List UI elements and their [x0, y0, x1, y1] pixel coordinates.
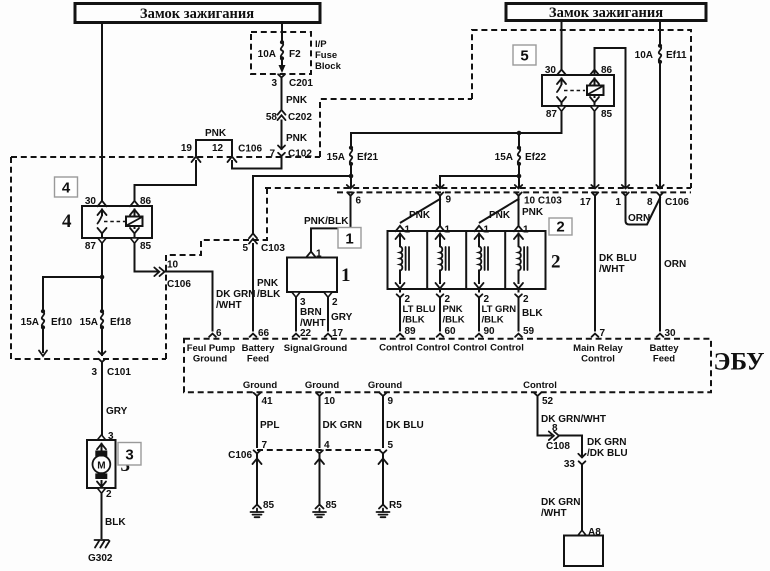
dashed boundary: underhood fuse/relay block outline (left box + top run) — [11, 156, 320, 158]
svg-text:6: 6 — [216, 328, 222, 339]
component 1 pin 3 — [292, 292, 306, 308]
relay 4 pin 87 — [85, 238, 106, 252]
svg-text:1: 1 — [445, 225, 451, 236]
svg-text:Ef10: Ef10 — [51, 317, 73, 328]
ORN jumper loop pins 1-8 — [626, 198, 661, 225]
svg-text:C101: C101 — [107, 367, 131, 378]
svg-text:PPL: PPL — [260, 420, 279, 431]
dashed box: I/P fuse block — [251, 32, 311, 74]
wire DK GRN/WHT to A8 — [541, 465, 582, 532]
wire: Ef22 to connector 10 C103 with branch to connector 9 — [517, 165, 522, 187]
svg-text:6: 6 — [356, 196, 362, 207]
svg-text:2: 2 — [523, 294, 529, 305]
svg-text:15A: 15A — [495, 152, 513, 163]
dashed boundary: connector row upper line — [265, 187, 691, 189]
svg-text:59: 59 — [523, 326, 535, 337]
ECU bottom pin 52 Control — [523, 380, 557, 436]
svg-text:15A: 15A — [80, 317, 98, 328]
connector C106 pin 10 — [154, 260, 191, 291]
wire LT BLU/BLK to ECU pin 89 — [400, 298, 436, 331]
connector 33 — [564, 454, 586, 470]
svg-text:Control: Control — [453, 343, 487, 354]
svg-text:17: 17 — [332, 328, 344, 339]
svg-text:Signal: Signal — [284, 343, 313, 354]
svg-text:DK BLU: DK BLU — [599, 253, 637, 264]
svg-text:9: 9 — [446, 195, 452, 206]
wire: relay5 87 to feed line — [351, 111, 562, 133]
svg-text:8: 8 — [552, 423, 558, 434]
connector C106 pin 5 — [379, 440, 394, 504]
svg-text:10A: 10A — [258, 49, 276, 60]
svg-text:Ef18: Ef18 — [110, 317, 132, 328]
svg-text:41: 41 — [262, 396, 274, 407]
connector C103 pin 5 — [242, 233, 285, 254]
wire: ignition right to fuse Ef11 — [659, 21, 661, 46]
svg-text:BLK: BLK — [522, 308, 543, 319]
wire to pin 33 — [559, 436, 628, 460]
svg-text:DK GRN: DK GRN — [323, 420, 362, 431]
wire DK BLU/WHT to ECU pin 7 — [595, 200, 637, 331]
svg-text:Ground: Ground — [305, 380, 339, 391]
connector row: pin 17 — [580, 185, 599, 208]
injector 1 — [396, 225, 411, 306]
injector feed diagonal to injector 3 — [480, 199, 519, 223]
svg-text:7: 7 — [600, 328, 606, 339]
ECU bottom pin 10 Ground — [305, 380, 339, 447]
fuel pump callout box 3 — [118, 443, 141, 466]
relay 5 coil — [587, 79, 604, 106]
svg-text:G302: G302 — [88, 553, 113, 564]
wire: relay4 87 down with branch junction — [100, 243, 105, 311]
svg-text:30: 30 — [85, 196, 97, 207]
ignition switch box right (Замок зажигания) — [506, 4, 706, 22]
svg-text:8: 8 — [647, 197, 653, 208]
svg-text:85: 85 — [140, 241, 152, 252]
wire: Ef11 down to connector 8 C106 — [659, 63, 661, 187]
injectors component 2 box — [388, 231, 546, 289]
svg-text:Ef22: Ef22 — [525, 152, 547, 163]
svg-text:85: 85 — [263, 500, 275, 511]
svg-text:33: 33 — [564, 459, 576, 470]
svg-text:87: 87 — [546, 109, 558, 120]
wire: branch to Ef10 — [43, 277, 102, 311]
injector 3 — [475, 225, 490, 306]
svg-text:5: 5 — [242, 243, 248, 254]
wire: pin19 down to relay4 pin 86 — [135, 161, 197, 201]
svg-text:Battery: Battery — [242, 343, 275, 354]
svg-text:Feul Pump: Feul Pump — [187, 343, 236, 354]
dashed box: ECU (ЭБУ) — [184, 339, 711, 393]
ECU pin 90 Control — [453, 326, 495, 354]
svg-text:/WHT: /WHT — [541, 508, 567, 519]
fuse Ef22 15A — [495, 146, 547, 166]
svg-text:1: 1 — [523, 225, 529, 236]
svg-text:DK GRN/WHT: DK GRN/WHT — [541, 414, 606, 425]
relay 5 box — [542, 75, 614, 106]
svg-text:15A: 15A — [21, 317, 39, 328]
connector row: pin 10 C103 — [515, 185, 562, 207]
svg-text:Main Relay: Main Relay — [573, 343, 623, 354]
wire: Ef18 to C101 — [101, 328, 103, 355]
svg-text:66: 66 — [258, 328, 270, 339]
svg-text:Ground: Ground — [313, 343, 347, 354]
wire: ignition left to relay4 pin30 — [101, 23, 103, 202]
ECU bottom pin 9 Ground — [368, 380, 402, 447]
svg-text:5: 5 — [520, 48, 528, 65]
ECU pin 7 Main Relay Control — [573, 328, 623, 365]
wire PNK C201-C202 — [282, 78, 308, 111]
relay 4 coil — [126, 210, 143, 238]
relay 4 pin 85 — [130, 238, 151, 252]
relay 4 callout box — [55, 177, 78, 197]
svg-text:10: 10 — [167, 260, 179, 271]
ground 85 (PPL) — [251, 500, 275, 517]
svg-text:2: 2 — [106, 489, 112, 500]
svg-text:PNK: PNK — [522, 207, 544, 218]
svg-text:/BLK: /BLK — [403, 315, 425, 326]
wire PNK/BLK to ECU pin 60 — [440, 298, 465, 331]
svg-text:9: 9 — [388, 396, 394, 407]
svg-text:Block: Block — [315, 61, 342, 72]
injector 4 — [514, 225, 529, 306]
dashed boundary: connector row lower line — [337, 191, 691, 193]
fuse Ef18 15A — [80, 309, 132, 329]
relay 4 pin 30 — [85, 196, 107, 207]
svg-text:F2: F2 — [289, 49, 301, 60]
svg-text:Ef11: Ef11 — [666, 50, 687, 61]
connector row: pin 9 — [436, 185, 451, 206]
connector row: pin 1 — [615, 185, 629, 208]
component 1 callout box — [338, 228, 361, 249]
svg-text:C103: C103 — [261, 243, 285, 254]
relay 4 switch — [98, 210, 107, 238]
wire: feed down to Ef21 — [350, 133, 352, 147]
wire PNK/BLK: connector 6 to component 1 pin 1 — [304, 216, 351, 251]
svg-text:R5: R5 — [389, 500, 402, 511]
wire: relay4 85 to C106 pin10 — [135, 243, 158, 272]
svg-text:C106: C106 — [665, 197, 689, 208]
svg-text:/WHT: /WHT — [216, 300, 242, 311]
svg-text:Fuse: Fuse — [315, 50, 337, 61]
module box A8 — [564, 527, 603, 566]
ECU pin 6 Feul Pump Ground — [187, 328, 236, 365]
ECU pin 22 Signal — [284, 328, 313, 354]
svg-text:DK BLU: DK BLU — [386, 420, 424, 431]
PNK jumper staple pins 19-12 — [181, 128, 232, 155]
ground G302 — [88, 540, 113, 564]
svg-text:Замок зажигания: Замок зажигания — [140, 6, 254, 22]
svg-text:Control: Control — [581, 354, 615, 365]
wire: branch to connector 9 — [440, 176, 519, 187]
svg-text:DK GRN: DK GRN — [216, 289, 255, 300]
ECU pin 66 Battery Feed — [242, 328, 275, 365]
svg-text:4: 4 — [62, 211, 72, 232]
fuse F2 10A — [258, 40, 301, 60]
svg-text:LT GRN: LT GRN — [482, 304, 517, 315]
svg-text:Control: Control — [416, 343, 450, 354]
svg-text:Feed: Feed — [247, 354, 269, 365]
wire BLK to ground — [102, 493, 127, 538]
svg-text:DK GRN: DK GRN — [587, 437, 626, 448]
ECU pin 60 Control — [416, 326, 456, 354]
svg-text:Control: Control — [379, 343, 413, 354]
svg-text:52: 52 — [542, 396, 554, 407]
injector feed to injector 2 — [439, 202, 441, 226]
connector row: pin 8 C106 — [647, 185, 689, 208]
svg-text:C202: C202 — [288, 112, 312, 123]
wire+arrow: Ef10 to boundary — [39, 328, 47, 356]
connector C108 pin 8 — [546, 423, 570, 452]
relay 4 pin 86 — [130, 196, 152, 207]
svg-text:PNK: PNK — [286, 95, 308, 106]
svg-text:85: 85 — [601, 109, 613, 120]
connector C106 pin 19 — [192, 157, 201, 163]
svg-text:10 C103: 10 C103 — [524, 196, 562, 207]
svg-text:12: 12 — [212, 143, 224, 154]
wire GRY to ECU pin 17 — [328, 297, 353, 330]
wire: ignition right to relay5 pin30 — [561, 21, 563, 70]
dashed boundary: vertical jog to C103 row — [266, 188, 268, 240]
svg-text:C108: C108 — [546, 441, 570, 452]
svg-text:2: 2 — [556, 219, 564, 236]
fuel pump motor 3 — [87, 431, 116, 493]
svg-text:86: 86 — [140, 196, 152, 207]
relay 4 internal dashed link — [104, 221, 125, 223]
svg-text:Feed: Feed — [653, 354, 675, 365]
svg-text:PNK: PNK — [443, 304, 463, 315]
svg-text:30: 30 — [665, 328, 677, 339]
connector C102 pin 7 — [238, 144, 312, 163]
svg-text:86: 86 — [601, 65, 613, 76]
ECU pin 59 Control — [490, 326, 534, 354]
relay 5 pin 30 — [545, 65, 566, 76]
svg-text:C102: C102 — [288, 149, 312, 160]
svg-text:60: 60 — [445, 326, 457, 337]
svg-text:1: 1 — [345, 231, 353, 248]
wire DK GRN/WHT to ECU pin 6 — [165, 272, 256, 331]
relay 5 pin 85 — [590, 106, 612, 120]
svg-text:19: 19 — [181, 143, 193, 154]
relay 4 box — [82, 206, 152, 238]
connector C201 pin 3 — [271, 74, 313, 89]
svg-text:/DK BLU: /DK BLU — [587, 448, 628, 459]
svg-text:2: 2 — [332, 297, 338, 308]
svg-text:/BLK: /BLK — [443, 315, 465, 326]
relay 5 callout box — [513, 45, 536, 65]
svg-text:15A: 15A — [327, 152, 345, 163]
svg-text:17: 17 — [580, 197, 592, 208]
wire: Ef21 to connector 6 with branch to C103 pin5 — [349, 165, 354, 187]
svg-text:7: 7 — [269, 149, 275, 160]
svg-text:10: 10 — [324, 396, 336, 407]
component 2 callout box — [549, 218, 572, 236]
svg-text:1: 1 — [484, 225, 490, 236]
svg-text:DK GRN: DK GRN — [541, 497, 580, 508]
svg-text:C106: C106 — [228, 450, 252, 461]
connector C101 pin 3 — [91, 352, 131, 379]
svg-text:87: 87 — [85, 241, 97, 252]
svg-text:30: 30 — [545, 65, 557, 76]
wire: feed down to Ef22 — [518, 133, 520, 147]
svg-text:BLK: BLK — [105, 517, 126, 528]
injector 2 — [436, 225, 451, 306]
connector C106 pin 7 — [228, 440, 267, 504]
svg-text:58: 58 — [266, 112, 278, 123]
svg-text:7: 7 — [262, 440, 268, 451]
svg-text:PNK: PNK — [409, 210, 431, 221]
svg-text:ЭБУ: ЭБУ — [714, 349, 765, 376]
svg-text:PNK/BLK: PNK/BLK — [304, 216, 349, 227]
wire GRY to fuel pump — [102, 362, 128, 435]
svg-text:Ef21: Ef21 — [357, 152, 379, 163]
ECU pin 30 Battey Feed — [649, 328, 679, 365]
wire: relay5 86 up and over to connector 1 — [595, 48, 626, 187]
svg-text:I/P: I/P — [315, 39, 327, 50]
label I/P Fuse Block — [315, 39, 342, 72]
svg-text:PNK: PNK — [489, 210, 511, 221]
svg-text:4: 4 — [62, 180, 71, 197]
svg-text:Ground: Ground — [368, 380, 402, 391]
svg-text:M: M — [97, 460, 105, 471]
svg-text:1: 1 — [405, 225, 411, 236]
wire: branch to C103 pin 5 — [253, 176, 351, 233]
relay 5 switch — [557, 79, 566, 106]
svg-text:C201: C201 — [289, 78, 313, 89]
wire PNK C202-C102 — [282, 121, 308, 150]
svg-text:GRY: GRY — [106, 406, 128, 417]
svg-text:Замок зажигания: Замок зажигания — [549, 5, 663, 21]
ignition switch box left (Замок зажигания) — [75, 4, 320, 23]
relay 5 pin 86 — [590, 65, 613, 76]
wire BLK to ECU pin 59 — [519, 298, 544, 331]
svg-text:90: 90 — [484, 326, 496, 337]
svg-text:BRN: BRN — [300, 307, 322, 318]
wire: jumper under row pin12 to C102 pin7 — [232, 161, 282, 169]
wire PNK/BLK to ECU pin 66 — [253, 244, 281, 331]
svg-text:Control: Control — [523, 380, 557, 391]
wire ORN to ECU pin 30 — [660, 200, 686, 331]
relay 5 pin 87 — [546, 106, 566, 120]
ECU pin 89 Control — [379, 326, 416, 354]
junction dot feed/Ef22 — [517, 131, 522, 136]
connector C106 pin 12 — [228, 157, 237, 163]
connector C202 pin 58 — [266, 110, 312, 123]
svg-text:10A: 10A — [635, 50, 653, 61]
svg-text:3: 3 — [91, 367, 97, 378]
svg-text:ORN: ORN — [664, 259, 686, 270]
svg-text:/BLK: /BLK — [257, 289, 281, 300]
ground 85 (DK GRN) — [313, 500, 337, 517]
svg-text:PNK: PNK — [205, 128, 227, 139]
wire BRN/WHT to ECU pin 22 — [296, 297, 326, 330]
svg-text:GRY: GRY — [331, 312, 353, 323]
svg-text:Ground: Ground — [243, 380, 277, 391]
ground R5 (DK BLU) — [377, 500, 403, 517]
wire LT GRN/BLK to ECU pin 90 — [479, 298, 516, 331]
svg-text:1: 1 — [341, 265, 351, 286]
svg-text:Ground: Ground — [193, 354, 227, 365]
relay 5 internal dashed link — [564, 90, 585, 92]
svg-text:Battey: Battey — [649, 343, 679, 354]
connector row: pin 6 — [347, 185, 362, 228]
svg-text:PNK: PNK — [286, 133, 308, 144]
component 1 pin 2 — [324, 292, 338, 308]
fuse Ef21 15A — [327, 146, 379, 166]
svg-text:89: 89 — [405, 326, 417, 337]
svg-text:C106: C106 — [167, 279, 191, 290]
component 1 box (fuel pump relay assembly) — [287, 249, 337, 293]
wire: ignition left to fuse F2 — [281, 23, 283, 43]
ECU pin 17 Ground — [313, 328, 347, 354]
svg-text:/WHT: /WHT — [599, 264, 625, 275]
injector feed diagonal to injector 1 — [401, 199, 440, 223]
svg-text:4: 4 — [324, 440, 330, 451]
dashed line: C106 connector row bottom — [257, 449, 383, 451]
injector feed to injector 4 — [519, 202, 544, 226]
svg-text:LT BLU: LT BLU — [403, 304, 436, 315]
svg-text:22: 22 — [300, 328, 312, 339]
fuse Ef10 15A — [21, 309, 73, 329]
svg-text:1: 1 — [615, 197, 621, 208]
svg-text:ORN: ORN — [628, 213, 650, 224]
svg-text:3: 3 — [271, 78, 277, 89]
svg-text:C106: C106 — [238, 144, 262, 155]
svg-text:2: 2 — [551, 252, 561, 273]
svg-text:85: 85 — [326, 500, 338, 511]
connector C106 pin 4 — [315, 440, 330, 504]
injector cell dividers — [427, 231, 505, 289]
wire+arrow: F2 to C201 — [279, 59, 286, 73]
svg-text:/BLK: /BLK — [482, 315, 504, 326]
svg-text:3: 3 — [125, 447, 133, 464]
svg-text:Control: Control — [490, 343, 524, 354]
svg-text:PNK: PNK — [257, 278, 279, 289]
fuse Ef11 10A — [635, 44, 687, 64]
svg-text:5: 5 — [388, 440, 394, 451]
wire: relay5 85 down to connector 17 — [594, 111, 596, 187]
ECU bottom pin 41 Ground — [243, 380, 277, 447]
